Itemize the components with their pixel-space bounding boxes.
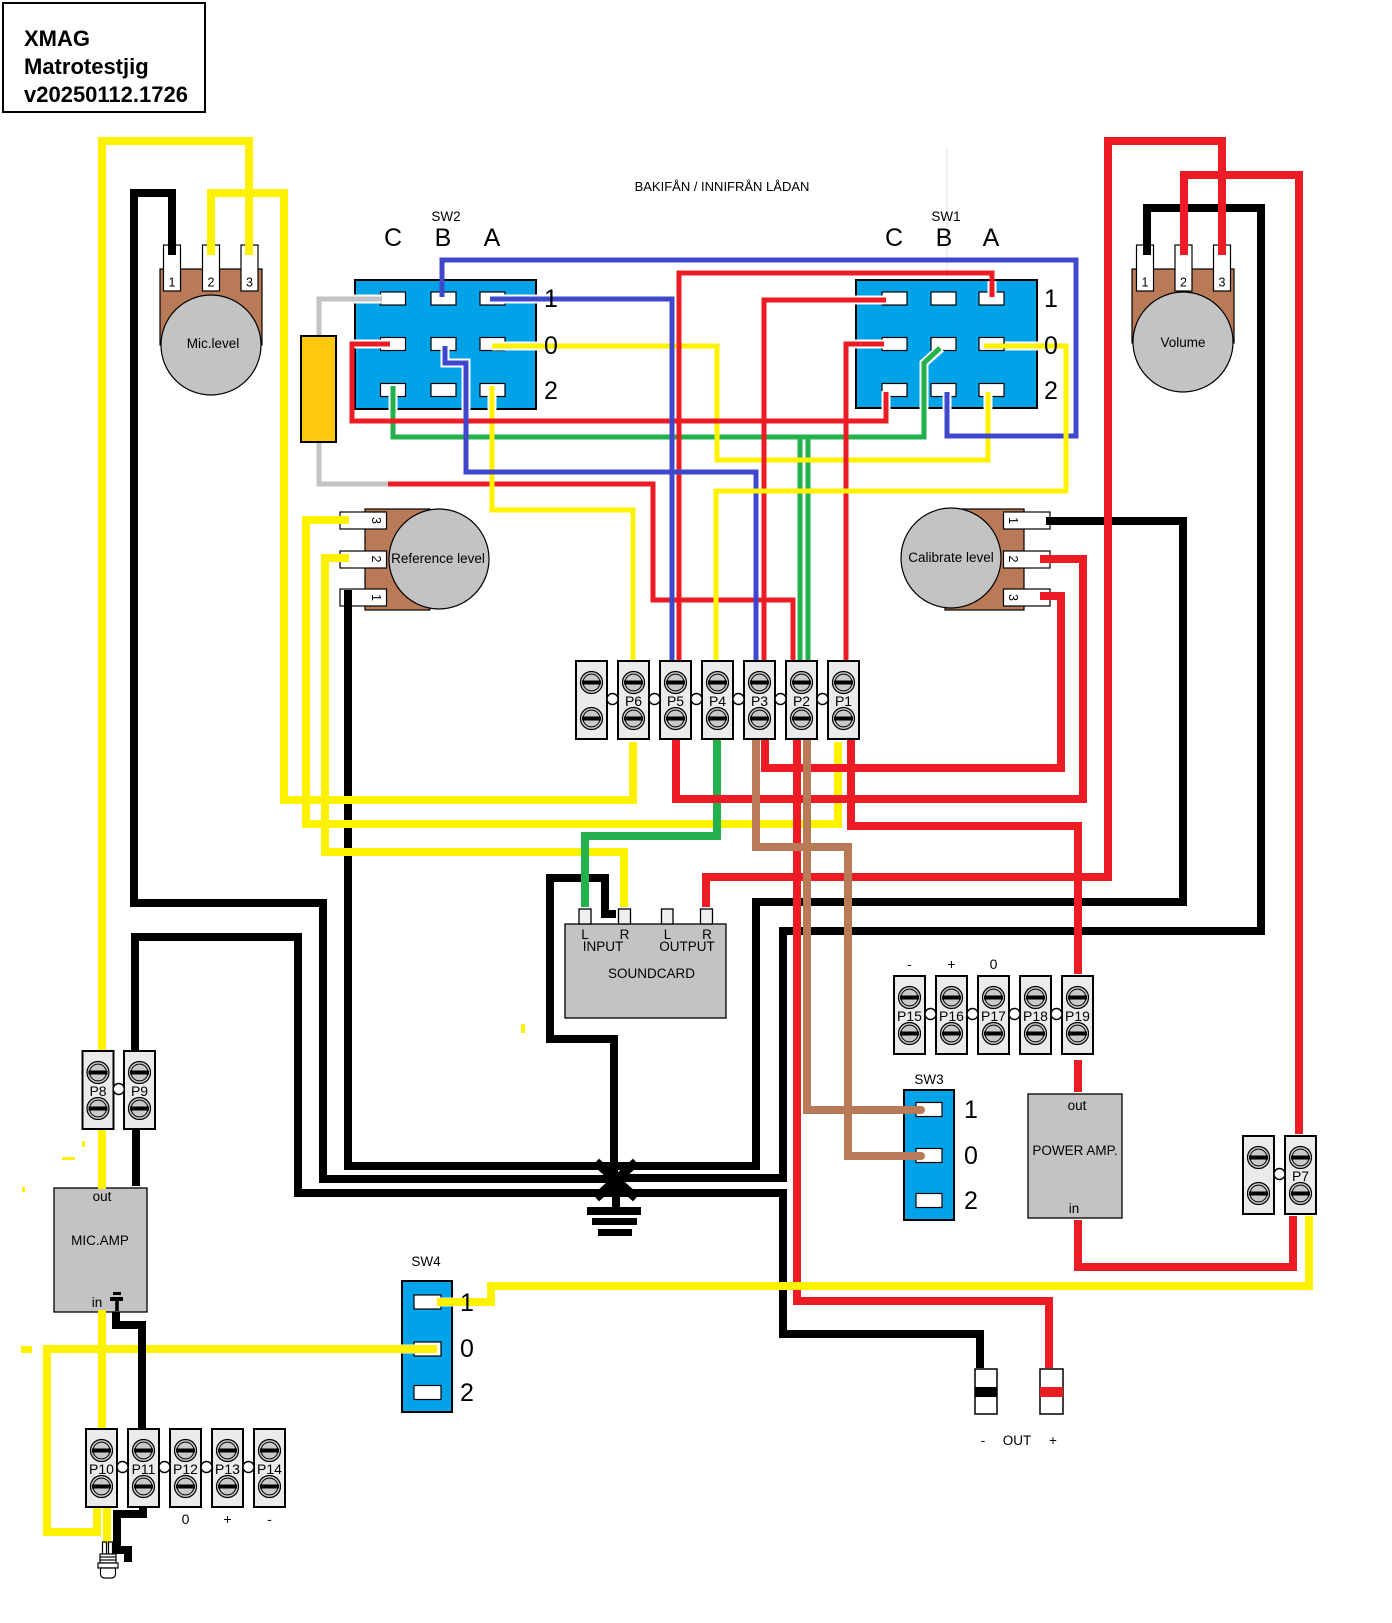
svg-text:-: - [981,1433,986,1448]
svg-text:P1: P1 [835,693,852,709]
svg-text:P12: P12 [173,1461,198,1477]
svg-text:-: - [267,1511,272,1527]
svg-text:Calibrate level: Calibrate level [908,550,994,565]
svg-text:3: 3 [246,276,253,290]
svg-text:1: 1 [1142,276,1149,290]
svg-text:0: 0 [1044,332,1058,360]
svg-text:P3: P3 [751,693,768,709]
svg-text:+: + [223,1511,231,1527]
svg-text:+: + [947,956,955,972]
svg-text:in: in [1069,1201,1080,1216]
svg-text:1: 1 [544,285,558,313]
svg-text:v20250112.1726: v20250112.1726 [24,82,188,107]
svg-text:out: out [1068,1098,1087,1113]
svg-text:2: 2 [1006,556,1020,563]
svg-text:A: A [484,224,501,252]
svg-text:C: C [885,224,903,252]
svg-text:1: 1 [1044,285,1058,313]
svg-text:0: 0 [964,1142,978,1170]
svg-text:P14: P14 [257,1461,282,1477]
svg-text:2: 2 [1044,377,1058,405]
svg-text:0: 0 [460,1335,474,1363]
svg-text:MIC.AMP: MIC.AMP [71,1233,129,1248]
svg-text:B: B [435,224,452,252]
svg-text:3: 3 [369,517,383,524]
svg-text:2: 2 [460,1379,474,1407]
svg-text:P9: P9 [131,1083,148,1099]
svg-text:INPUT: INPUT [583,939,624,954]
svg-text:P7: P7 [1292,1168,1309,1184]
svg-text:P16: P16 [939,1008,964,1024]
svg-text:P6: P6 [625,693,642,709]
svg-text:XMAG: XMAG [24,26,90,51]
svg-text:P17: P17 [981,1008,1006,1024]
svg-text:P19: P19 [1065,1008,1090,1024]
svg-text:OUT: OUT [1003,1433,1032,1448]
svg-text:0: 0 [990,956,998,972]
svg-text:P4: P4 [709,693,726,709]
svg-text:P13: P13 [215,1461,240,1477]
svg-text:Reference level: Reference level [391,551,485,566]
svg-text:0: 0 [182,1511,190,1527]
svg-text:2: 2 [208,276,215,290]
svg-text:in: in [92,1295,103,1310]
svg-text:-: - [907,956,912,972]
svg-text:OUTPUT: OUTPUT [659,939,715,954]
svg-text:A: A [983,224,1000,252]
svg-text:P2: P2 [793,693,810,709]
svg-text:3: 3 [1219,276,1226,290]
svg-text:B: B [936,224,953,252]
svg-text:SW2: SW2 [431,209,460,224]
svg-text:C: C [384,224,402,252]
svg-text:P18: P18 [1023,1008,1048,1024]
svg-text:1: 1 [964,1096,978,1124]
svg-text:0: 0 [544,332,558,360]
svg-text:1: 1 [369,594,383,601]
svg-text:P15: P15 [897,1008,922,1024]
svg-text:out: out [93,1189,112,1204]
svg-text:3: 3 [1006,594,1020,601]
svg-text:P11: P11 [132,1461,156,1477]
svg-text:P10: P10 [89,1461,114,1477]
svg-text:SOUNDCARD: SOUNDCARD [608,966,695,981]
svg-text:Matrotestjig: Matrotestjig [24,54,149,79]
svg-text:Mic.level: Mic.level [187,336,240,351]
svg-text:2: 2 [544,377,558,405]
svg-text:1: 1 [460,1289,474,1317]
svg-text:POWER AMP.: POWER AMP. [1032,1143,1117,1158]
svg-text:2: 2 [1180,276,1187,290]
svg-text:SW1: SW1 [931,209,960,224]
svg-text:1: 1 [169,276,176,290]
svg-text:2: 2 [964,1187,978,1215]
svg-text:SW3: SW3 [914,1072,943,1087]
svg-text:+: + [1049,1433,1057,1448]
svg-text:P8: P8 [89,1083,106,1099]
svg-text:2: 2 [369,556,383,563]
svg-text:SW4: SW4 [411,1254,441,1269]
svg-text:BAKIFÅN / INNIFRÅN LÅDAN: BAKIFÅN / INNIFRÅN LÅDAN [635,179,810,194]
svg-text:Volume: Volume [1160,335,1205,350]
svg-text:1: 1 [1006,517,1020,524]
svg-text:P5: P5 [667,693,684,709]
